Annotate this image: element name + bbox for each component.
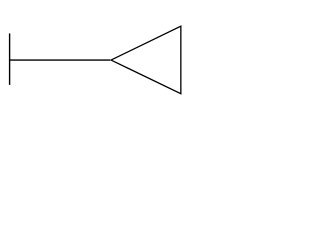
terminal bar (left electrode) xyxy=(9,33,11,85)
wire xyxy=(10,59,111,61)
amplifier triangle xyxy=(111,26,181,94)
